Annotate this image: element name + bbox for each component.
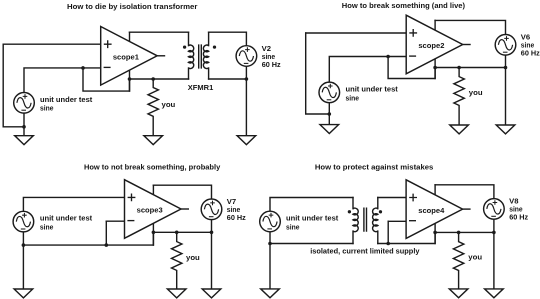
- resistor "you" (circuit 3): [172, 232, 182, 289]
- voltage source V2 (sine 60 Hz): [236, 46, 257, 67]
- svg-text:60 Hz: 60 Hz: [262, 60, 281, 69]
- wire: to ground: [23, 127, 25, 136]
- svg-text:sine: sine: [40, 223, 54, 232]
- ground (circuit 1 V2): [237, 136, 256, 145]
- junction at source bottom (circuit 2): [328, 112, 332, 116]
- wire: source top to scope3 + input: [23, 197, 124, 211]
- junction at scope1 - input node: [81, 66, 85, 70]
- svg-text:unit under test: unit under test: [40, 214, 93, 223]
- voltage source: unit under test (sine), circuit 4: [260, 211, 281, 232]
- wire: scope2 loop top to V6: [435, 20, 505, 34]
- resistor "you" (circuit 4): [453, 232, 463, 289]
- wire: - input down to ground rail (circuit 3): [105, 221, 107, 245]
- wire: V7 bottom lead: [211, 220, 213, 233]
- wire: left rail down to source bottom node (circuit 2): [306, 33, 330, 114]
- voltage source V8 (sine 60 Hz): [484, 199, 505, 220]
- svg-text:isolated, current limited supp: isolated, current limited supply: [310, 247, 420, 256]
- junction V8 bottom node: [492, 231, 496, 235]
- wire: to ground (circuit 3 source): [22, 245, 24, 289]
- wire: scope2 loop left vertical (passes behind scope2): [434, 20, 436, 78]
- svg-text:sine: sine: [346, 93, 360, 102]
- wire: scope4 loop bottom: [435, 231, 494, 233]
- svg-text:How to not break something, pr: How to not break something, probably: [84, 162, 221, 171]
- svg-text:you: you: [468, 252, 482, 261]
- svg-text:60 Hz: 60 Hz: [509, 213, 528, 222]
- wire: scope1 + input from left rail: [3, 43, 101, 45]
- wire: scope4 loop left vertical (passes behind scope4): [434, 185, 436, 244]
- ground (circuit 2 source): [320, 125, 339, 134]
- op-amp style oscilloscope scope4: [406, 180, 471, 239]
- svg-text:you: you: [186, 253, 200, 262]
- transformer XFMR1 core: [199, 44, 202, 68]
- wire: unit-under-test source bottom lead: [23, 113, 25, 127]
- XFMR2 primary phase dot: [348, 210, 351, 213]
- svg-text:XFMR1: XFMR1: [188, 83, 214, 92]
- wire: - node down to scope2 low side (circuit 2): [388, 57, 435, 79]
- transformer XFMR2 core: [364, 208, 367, 232]
- XFMR1 secondary phase dot: [213, 45, 216, 48]
- ground (circuit 4 "you"): [449, 289, 468, 298]
- svg-text:sine: sine: [286, 222, 300, 231]
- transformer XFMR2 secondary winding: [373, 208, 378, 232]
- junction scope4 loop bottom-left: [433, 231, 437, 235]
- ground (circuit 1 source): [15, 136, 34, 145]
- op-amp style oscilloscope scope1: [101, 27, 166, 86]
- voltage source: unit under test (sine), circuit 3: [13, 211, 34, 232]
- XFMR2 secondary phase dot: [379, 210, 382, 213]
- transformer XFMR2 primary winding: [353, 208, 358, 232]
- svg-text:How to break something (and li: How to break something (and live): [342, 1, 466, 10]
- junction source bottom (circuit 4): [268, 242, 272, 246]
- wire: V6 node to ground: [505, 68, 507, 126]
- wire: scope1 loop bottom: [130, 78, 189, 80]
- wire: V8 node to ground: [493, 232, 495, 289]
- wire: scope4 - input stub: [388, 220, 406, 222]
- wire: XFMR1 primary top lead: [188, 32, 190, 45]
- junction resistor top (circuit 3): [175, 231, 179, 235]
- voltage source: unit under test (sine), circuit 2: [319, 82, 340, 103]
- svg-text:unit under test: unit under test: [40, 95, 93, 104]
- XFMR1 primary phase dot: [183, 45, 186, 48]
- ground (circuit 3 source): [14, 289, 33, 298]
- wire: scope3 loop bottom: [153, 231, 211, 233]
- resistor "you" (circuit 1): [148, 79, 158, 136]
- ground (circuit 1 "you"): [144, 136, 163, 145]
- junction V2 bottom node: [245, 77, 249, 81]
- wire: XFMR1 secondary top lead: [208, 32, 210, 45]
- ground (circuit 3 V7): [202, 289, 221, 298]
- ground (circuit 2 V6): [496, 125, 515, 134]
- junction - branch on secondary rail: [386, 242, 390, 246]
- wire: scope1 loop top to XFMR1 primary: [130, 31, 189, 33]
- op-amp style oscilloscope scope2: [406, 15, 471, 74]
- resistor "you" (circuit 2): [454, 68, 464, 126]
- wire: V8 bottom lead: [493, 219, 495, 232]
- wire: left rail down to source bottom node: [3, 44, 24, 127]
- ground (circuit 4 source): [261, 289, 280, 298]
- svg-text:scope1: scope1: [113, 53, 139, 62]
- svg-text:60 Hz: 60 Hz: [521, 49, 540, 58]
- ground (circuit 3 "you"): [167, 289, 186, 298]
- wire: V2 node to ground: [245, 79, 247, 136]
- wire: source bottom lead (circuit 2): [328, 103, 330, 114]
- wire: source top to scope2 - input: [329, 57, 406, 83]
- wire: scope3 loop top to V7: [153, 185, 211, 199]
- svg-text:sine: sine: [40, 104, 54, 113]
- wire: XFMR2 secondary bottom lead: [377, 231, 379, 243]
- wire: to ground (circuit 2 source): [328, 114, 330, 125]
- ground (circuit 2 "you"): [450, 125, 469, 134]
- svg-text:60 Hz: 60 Hz: [227, 213, 246, 222]
- voltage source: unit under test (sine), circuit 1: [14, 93, 35, 114]
- wire: scope4 loop top to V8: [435, 185, 494, 199]
- wire: secondary top to V2: [209, 32, 247, 46]
- wire: source top to XFMR2 primary: [270, 198, 353, 212]
- junction resistor top (circuit 2): [457, 66, 461, 70]
- junction scope1 loop bottom-left: [128, 77, 132, 81]
- wire: primary bottom rail: [270, 243, 353, 245]
- svg-text:scope4: scope4: [418, 206, 445, 215]
- junction resistor top: [151, 77, 155, 81]
- voltage source V6 (sine 60 Hz): [495, 35, 516, 56]
- wire: XFMR1 primary bottom lead: [188, 68, 190, 79]
- wire: XFMR2 secondary top lead: [377, 198, 379, 209]
- junction - branch on ground rail (circuit 3): [105, 243, 109, 247]
- wire: scope1 loop left vertical (passes behind scope1): [129, 32, 131, 91]
- wire: - branch vertical (circuit 4): [387, 221, 389, 243]
- wire: secondary bottom to V2 node: [209, 78, 247, 80]
- transformer XFMR1 secondary winding: [203, 45, 208, 69]
- junction at scope2 - input node: [386, 55, 390, 59]
- wire: scope2 loop bottom: [435, 67, 505, 69]
- wire: source top to scope1 - input: [24, 68, 101, 93]
- svg-text:scope3: scope3: [137, 206, 163, 215]
- junction resistor top (circuit 4): [457, 231, 461, 235]
- junction source bottom (circuit 3): [22, 243, 26, 247]
- svg-text:How to die by isolation transf: How to die by isolation transformer: [67, 2, 197, 11]
- wire: V7 node to ground: [211, 232, 213, 289]
- junction V6 bottom node: [504, 66, 508, 70]
- wire: secondary top to scope4 + input: [378, 197, 406, 199]
- junction scope2 loop bottom-left: [433, 66, 437, 70]
- wire: source bottom lead (circuit 3): [22, 232, 24, 245]
- svg-text:scope2: scope2: [418, 41, 444, 50]
- junction scope3 loop bottom-left: [152, 231, 156, 235]
- wire: to ground (circuit 4 source): [269, 244, 271, 289]
- wire: XFMR2 primary bottom lead: [352, 231, 354, 243]
- svg-text:unit under test: unit under test: [346, 85, 399, 94]
- voltage source V7 (sine 60 Hz): [201, 199, 222, 220]
- wire: scope3 loop left vertical (passes behind scope3): [152, 185, 154, 245]
- wire: ground rail over to scope3 low side: [23, 232, 153, 245]
- wire: secondary bottom rail to scope4 low side: [378, 232, 435, 243]
- wire: XFMR1 secondary bottom lead: [208, 68, 210, 79]
- junction V7 bottom node: [210, 231, 214, 235]
- junction at source bottom / ground node: [22, 125, 26, 129]
- transformer XFMR1 primary winding: [189, 45, 194, 69]
- svg-text:you: you: [469, 88, 483, 97]
- wire: - input node down and over to scope1 low-side loop: [83, 68, 130, 91]
- wire: V6 bottom lead: [505, 55, 507, 67]
- ground (circuit 4 V8): [485, 289, 504, 298]
- wire: V2 bottom lead: [245, 66, 247, 79]
- wire: source bottom lead (circuit 4): [269, 232, 271, 244]
- svg-text:unit under test: unit under test: [286, 214, 339, 223]
- wire: scope3 - input stub: [106, 220, 124, 222]
- wire: XFMR2 primary top lead: [352, 198, 354, 209]
- wire: scope2 + input from left rail: [306, 32, 407, 34]
- svg-text:you: you: [162, 100, 176, 109]
- svg-text:How to protect against mistake: How to protect against mistakes: [315, 162, 434, 171]
- op-amp style oscilloscope scope3: [125, 180, 190, 239]
